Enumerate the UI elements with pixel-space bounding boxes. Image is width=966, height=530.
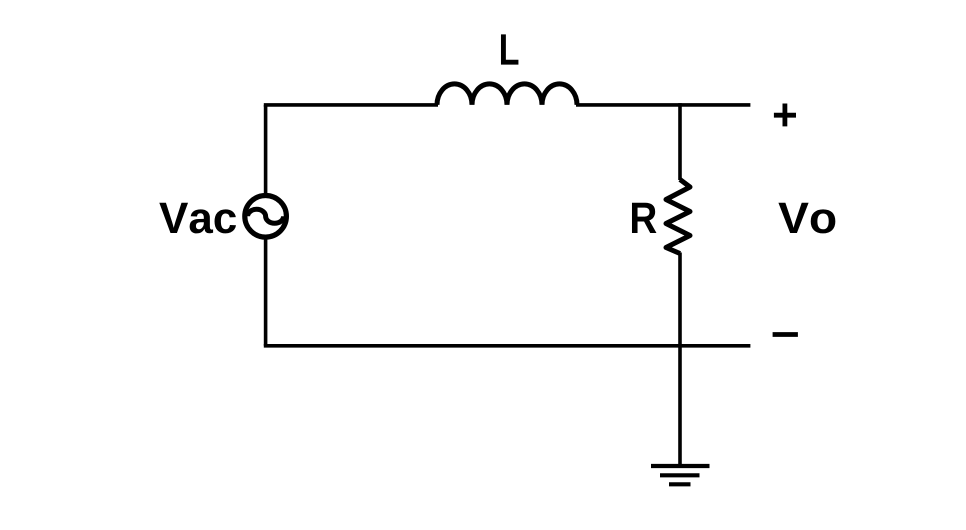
wire right vertical lower (resistor to ground) bbox=[678, 253, 682, 467]
label Vac bbox=[159, 203, 236, 234]
ground bbox=[651, 466, 710, 484]
wire right vertical upper (to resistor) bbox=[678, 103, 682, 180]
minus terminal bbox=[773, 332, 798, 337]
wire bottom bbox=[264, 344, 751, 348]
AC source Vac circle bbox=[245, 196, 287, 238]
wire left vertical (Vac branch) bbox=[264, 105, 268, 346]
label Vo bbox=[778, 203, 835, 234]
AC source sine wave bbox=[248, 209, 284, 223]
label R bbox=[632, 203, 656, 233]
label L bbox=[501, 34, 518, 64]
wire top right segment bbox=[576, 103, 750, 107]
plus terminal bbox=[774, 104, 796, 127]
resistor R zigzag bbox=[666, 180, 690, 254]
inductor L bbox=[437, 84, 577, 105]
wire top left segment bbox=[264, 103, 438, 107]
